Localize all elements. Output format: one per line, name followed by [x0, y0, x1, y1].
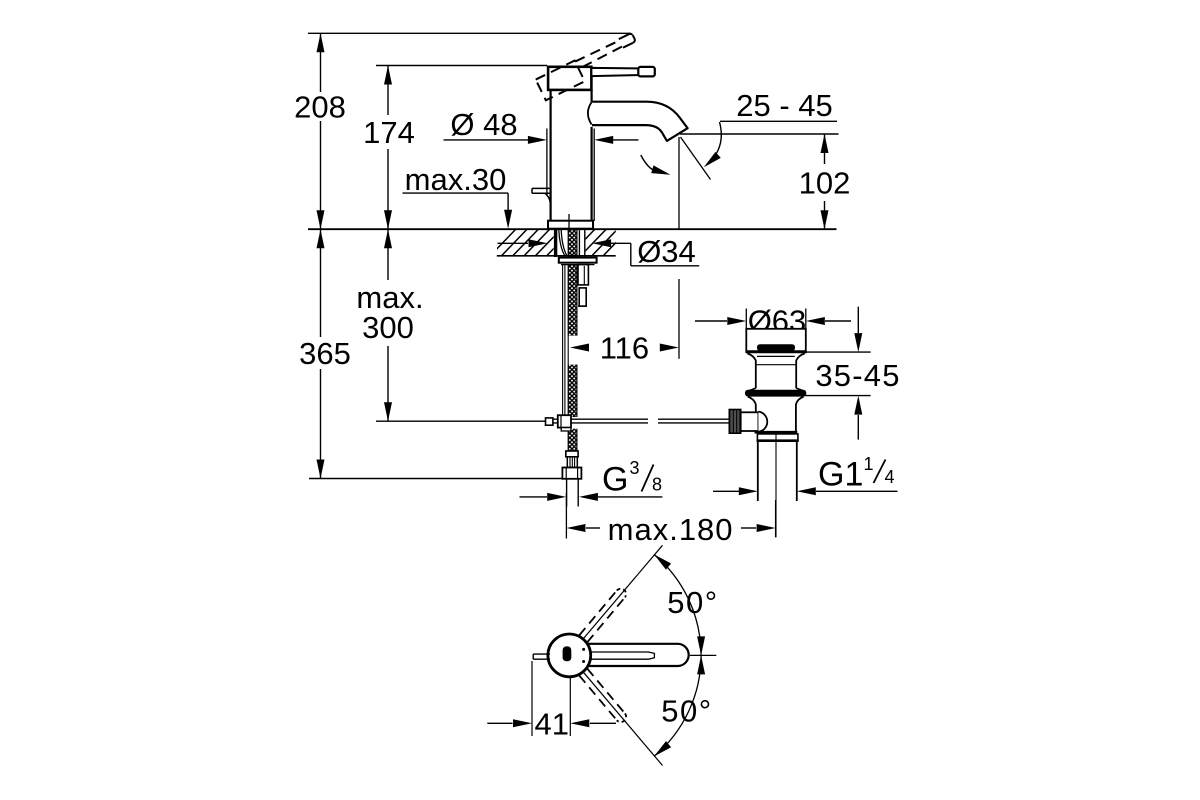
flexible hose curves in shank: [559, 230, 565, 256]
leader underline 25-45: [720, 120, 837, 122]
countertop surface line: [308, 228, 837, 230]
svg-text:G: G: [602, 461, 628, 499]
rod end cap: [546, 418, 553, 425]
braided hose segment in shank: [568, 230, 577, 258]
top view lever slot: [576, 652, 654, 659]
svg-text:8: 8: [652, 475, 662, 495]
svg-text:25 - 45: 25 - 45: [736, 88, 833, 123]
svg-text:116: 116: [600, 331, 649, 366]
braided hose segment D: [568, 429, 577, 451]
dimension line 102: [824, 134, 826, 229]
pull rod knob on body: [532, 188, 550, 203]
leader G1 1/4: [713, 490, 739, 492]
pop-up waste neck: [747, 353, 756, 388]
pull rod guide fitting: [578, 265, 588, 307]
dimension max.180: [565, 493, 567, 539]
pop-up rod horizontal: [546, 420, 730, 422]
svg-text:174: 174: [363, 115, 415, 150]
shank right wall: [578, 230, 580, 257]
lower dashed lever: [579, 669, 628, 725]
extension line 102 top / spout outlet level: [680, 133, 839, 135]
braided hose segment C: [568, 365, 577, 417]
left stub: [533, 654, 550, 659]
faucet lever: [591, 68, 640, 76]
pop-up waste O-ring: [745, 390, 806, 397]
knurled knob: [729, 410, 740, 434]
svg-text:G1: G1: [818, 456, 863, 494]
dashed handle rotated: [536, 33, 642, 101]
lower rotated lever line: [584, 672, 663, 765]
spout outlet extension line: [678, 137, 680, 229]
rod clamp at hose: [558, 415, 571, 427]
svg-text:208: 208: [294, 90, 346, 125]
extension line 208 top: [308, 32, 631, 34]
svg-text:50°: 50°: [667, 585, 718, 620]
svg-text:102: 102: [799, 166, 851, 201]
extension line 174 top: [376, 65, 547, 67]
valve body bottom: [755, 431, 798, 434]
svg-text:4: 4: [885, 467, 895, 487]
knob connector: [741, 412, 759, 431]
extension lines diameter 48: [546, 129, 548, 196]
countertop section hatch: [490, 229, 629, 256]
connection tube: [566, 479, 568, 507]
upper dashed lever: [579, 587, 628, 643]
dimension line 208/365: [320, 33, 322, 478]
svg-text:300: 300: [362, 310, 414, 345]
pop-up waste valve body: [748, 397, 756, 433]
mounting washer: [559, 258, 597, 263]
lower 50 degree arc: [654, 655, 701, 756]
dimension 48 arrows: [444, 139, 534, 141]
hose collar: [566, 451, 578, 457]
pop-up waste button: [757, 344, 795, 351]
extension line max300 bottom: [376, 420, 546, 422]
shank left wall: [554, 230, 557, 257]
faucet body: [549, 90, 551, 221]
dimension line 174/max300: [387, 66, 389, 422]
pop-up waste flare: [748, 388, 756, 391]
extension line 365 bottom: [309, 478, 562, 480]
pop-up waste flange: [746, 329, 806, 352]
svg-text:1: 1: [864, 454, 874, 474]
svg-text:50°: 50°: [661, 694, 712, 729]
base flange: [548, 221, 593, 229]
tailpipe: [757, 441, 759, 501]
upper rotated lever line: [584, 545, 663, 638]
dimension 41: [487, 722, 512, 724]
svg-text:max.180: max.180: [608, 512, 734, 547]
countertop section bottom line: [497, 255, 616, 257]
screw dots: [582, 648, 585, 651]
extension below circle: [569, 677, 571, 736]
axis line right: [690, 654, 716, 656]
hose ridged section: [567, 457, 577, 468]
G3/8 nut: [562, 468, 581, 479]
aerator direction line: [681, 137, 711, 180]
cable ball: [758, 412, 767, 432]
hose left edge through gap: [567, 336, 569, 365]
curved leader 25-45: [707, 122, 722, 165]
extension 41 left: [531, 661, 533, 736]
inner rod above counter: [568, 214, 570, 229]
pull rod below counter: [562, 265, 564, 416]
svg-text:max.30: max.30: [405, 162, 507, 197]
svg-text:Ø 48: Ø 48: [450, 107, 517, 142]
top view escutcheon circle: [548, 634, 591, 677]
faucet handle base: [548, 67, 591, 90]
waste center line: [775, 434, 777, 538]
leader G 3/8: [520, 496, 548, 498]
braided hose segment B: [568, 265, 577, 336]
pivot blob: [563, 646, 572, 661]
spout: [592, 102, 688, 141]
swivel arc arrow at spout: [641, 155, 657, 172]
svg-text:35-45: 35-45: [815, 358, 900, 393]
spout root arc: [588, 102, 592, 124]
top view lever: [569, 644, 689, 666]
svg-text:Ø34: Ø34: [637, 234, 696, 269]
dimension 35-45: [800, 351, 870, 353]
upper 50 degree arc: [654, 554, 701, 655]
svg-text:41: 41: [534, 707, 568, 742]
slip nut: [757, 434, 798, 441]
svg-text:3: 3: [630, 458, 640, 478]
svg-text:365: 365: [299, 336, 351, 371]
